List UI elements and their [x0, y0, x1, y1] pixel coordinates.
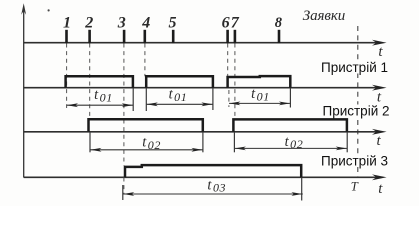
- extension line device3 pulse rise x=122.8: [122, 185, 124, 200]
- t03 left arrowhead: [123, 192, 134, 196]
- extension line device3 pulse fall x=301.7: [301, 178, 303, 201]
- svg-text:Пристрій 1: Пристрій 1: [321, 60, 388, 75]
- svg-text:4: 4: [141, 14, 150, 31]
- request tick 4: [144, 30, 147, 43]
- t01 dim3 left arrowhead: [229, 102, 240, 106]
- device 1 pulse C: [228, 76, 291, 88]
- device 3 pulse: [125, 165, 301, 177]
- svg-text:Т: Т: [351, 180, 359, 194]
- extension line device2 pulse1 fall x=202.9: [202, 132, 204, 152]
- extension line pulse B rise x=146.3: [145, 88, 147, 111]
- svg-text:Пристрій 2: Пристрій 2: [323, 104, 390, 119]
- svg-text:t02: t02: [142, 134, 161, 151]
- projection dash from tick 3: [123, 44, 125, 166]
- extension line pulse A fall x=133.2: [132, 88, 134, 111]
- projection dash below device1 axis for t01 dim 3: [228, 90, 230, 107]
- svg-text:8: 8: [275, 15, 283, 31]
- stray scan dot: [48, 9, 50, 11]
- t01 dim1 right arrowhead: [122, 103, 133, 107]
- svg-text:t01: t01: [94, 87, 113, 104]
- vertical axis arrowhead: [21, 3, 26, 15]
- extension line device2 pulse1 rise x=90: [89, 132, 91, 152]
- projection dash from tick 1: [66, 44, 68, 109]
- device 1 pulse A: [66, 76, 133, 88]
- device 1 pulse B: [146, 76, 213, 88]
- requests axis arrowhead: [372, 40, 387, 46]
- projection dash from tick 3 below device 3 axis: [123, 178, 125, 194]
- device 3 axis y=177.6: [24, 176, 380, 178]
- extension line device2 pulse2 fall x=347.2: [346, 132, 348, 152]
- device 1 axis arrowhead: [372, 85, 387, 91]
- t02 dim2 left arrowhead: [235, 147, 246, 151]
- vertical axis (ordinate): [23, 7, 25, 178]
- t02 dimension 2 line: [235, 147, 348, 149]
- period T dashed line x=357.8: [357, 26, 359, 177]
- svg-text:t02: t02: [285, 134, 304, 151]
- projection dash from tick 4: [144, 44, 146, 77]
- requests axis (Заявки) y=42.7: [24, 42, 380, 44]
- label Пристрій 2: [324, 105, 393, 118]
- projection dash from tick 6: [227, 44, 229, 77]
- svg-text:6: 6: [222, 14, 230, 31]
- request tick 7: [234, 30, 237, 43]
- device 3 axis arrowhead: [372, 174, 387, 180]
- svg-text:t03: t03: [207, 177, 226, 194]
- t01 dim2 left arrowhead: [147, 102, 158, 106]
- t01 dimension 1 line: [67, 104, 134, 106]
- svg-text:t01: t01: [251, 86, 270, 103]
- projection dash from tick 7: [234, 44, 236, 120]
- svg-text:Заявки: Заявки: [303, 8, 346, 24]
- request tick 1: [65, 30, 68, 43]
- extension line pulse C fall x=290.4: [289, 88, 291, 108]
- extension line device2 pulse2 rise x=234.4: [233, 132, 235, 152]
- svg-text:1: 1: [63, 14, 71, 31]
- request tick 2: [88, 30, 91, 43]
- svg-text:2: 2: [84, 14, 93, 31]
- device 2 pulse 2: [233, 119, 347, 131]
- t01 dim3 right arrowhead: [279, 102, 290, 106]
- t02 dim1 right arrowhead: [191, 148, 202, 152]
- t01 dimension 2 line: [146, 103, 212, 105]
- t02 dim2 right arrowhead: [336, 147, 347, 151]
- t01 dim2 right arrowhead: [201, 102, 212, 106]
- svg-text:7: 7: [231, 14, 240, 31]
- device 2 axis arrowhead: [372, 129, 387, 135]
- label Пристрій 3: [322, 155, 391, 168]
- t02 dimension 1 line: [90, 149, 203, 151]
- device 2 pulse 1: [89, 119, 203, 132]
- svg-text:3: 3: [117, 14, 126, 31]
- device 1 axis y=87.7: [24, 87, 380, 89]
- t02 dim1 left arrowhead: [90, 148, 101, 152]
- projection dash from tick 2: [89, 44, 91, 118]
- t03 right arrowhead: [291, 192, 302, 196]
- extension line pulse B fall x=212.9: [212, 88, 214, 110]
- svg-text:5: 5: [169, 14, 177, 31]
- request tick 6: [226, 30, 229, 43]
- device 2 axis y=131.8: [24, 131, 380, 133]
- request tick 5: [172, 30, 175, 43]
- svg-text:Пристрій 3: Пристрій 3: [321, 154, 388, 169]
- request tick 8: [278, 30, 281, 43]
- label Пристрій 1: [320, 61, 389, 74]
- t01 dim1 left arrowhead: [67, 103, 78, 107]
- request tick 3: [123, 30, 126, 43]
- t03 dimension line: [123, 193, 303, 195]
- t01 dimension 3 line: [229, 102, 290, 104]
- svg-text:t01: t01: [169, 87, 188, 104]
